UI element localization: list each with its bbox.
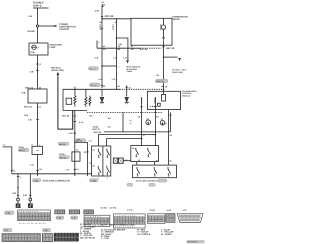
svg-text:(6): (6) (93, 164, 96, 167)
switch S3 (98, 166, 101, 174)
ETACS-ECU box top edge solid (63, 88, 120, 90)
wire TCM pin to switch box R (167, 110, 169, 166)
fuse F1 symbol circle (32, 45, 36, 49)
svg-text:(1): (1) (147, 117, 150, 120)
DLC pin stub 7 (74, 174, 76, 176)
connector oval C-23 bottom (5, 211, 15, 215)
svg-text:87/C-22: 87/C-22 (24, 105, 33, 108)
switch S9 (168, 167, 171, 175)
meter lower box right edge (170, 112, 172, 131)
fusible link underline (33, 7, 49, 9)
joint connector J/C(3) box (72, 152, 80, 161)
wire box2 to box M (123, 160, 131, 162)
svg-text:PU: PURPLE: PU: PURPLE (137, 233, 151, 236)
connector pinout grid A-06 (166, 214, 175, 223)
svg-text:MITSUBISHI: MITSUBISHI (187, 241, 197, 244)
switch box L (92, 146, 111, 176)
connector pinout grid small C-123 top (84, 210, 94, 214)
branch wire to second DLC pin (75, 143, 88, 174)
data link connector top line (12, 173, 92, 175)
ignition switch box (28, 89, 47, 103)
stub wire meter pin 38 (141, 97, 143, 112)
wire to combination meter horizontal (102, 18, 131, 20)
connector pinout grid C-135 (148, 214, 166, 224)
fuse F1 symbol bar (31, 46, 36, 48)
tick meter pin (162, 46, 164, 48)
svg-text:(16-PIN): (16-PIN) (110, 207, 117, 210)
connector pinout grid C-23 (18, 210, 51, 221)
junction dot V2 branch (116, 37, 118, 39)
combination meter box (131, 18, 172, 45)
tick V1 y=28.7 (101, 17, 103, 29)
meter lower box left edge (122, 112, 124, 131)
svg-text:86/C-22: 86/C-22 (89, 68, 95, 71)
stub wire meter pin 44 (155, 97, 157, 110)
switch S7 (137, 167, 140, 175)
connector oval C-23 DLC (33, 179, 41, 182)
tick pin 14 (11, 169, 13, 171)
ETACS-ECU box top edge dashed (120, 88, 164, 90)
wire V1 main diagnosis line (101, 7, 103, 88)
connector pinout grid C-38 (42, 234, 52, 242)
transmission control module box (148, 91, 181, 109)
svg-text:C-B: C-B (95, 56, 99, 59)
ground pin circle 2 (29, 198, 32, 201)
wire DLC ground 1 (17, 174, 19, 198)
resistor R3 (89, 96, 91, 107)
connector pinout grid C-134 (114, 214, 146, 229)
svg-text:SYSTEM: SYSTEM (59, 28, 69, 31)
svg-text:C-B: C-B (30, 163, 34, 166)
wire DLC ground 2 (29, 174, 31, 198)
svg-text:MU: MU (89, 114, 93, 117)
svg-text:PG: PG (156, 74, 159, 77)
tick pin 16 (36, 170, 38, 172)
wire V1 to V2 link (102, 65, 117, 67)
svg-text:METER: METER (172, 18, 180, 21)
tick pin 19 (161, 85, 163, 87)
ground symbol square 2 (28, 203, 33, 208)
svg-text:L-R: L-R (66, 169, 70, 172)
data link connector switch box (133, 165, 177, 178)
svg-text:FUSE: FUSE (50, 46, 56, 49)
svg-text:0.85: 0.85 (118, 43, 122, 46)
junction dot V1-V2 link (101, 65, 103, 67)
switch S7 arrowhead (137, 175, 139, 177)
junction dot meter branch (163, 56, 165, 58)
switch S4 arrowhead (106, 174, 108, 176)
pin stub from box M (136, 162, 138, 166)
svg-text:NOTE : WIRING HARNESS CODE: NOTE : WIRING HARNESS CODE (101, 223, 135, 226)
indicator lamp arrow 1 (147, 121, 149, 125)
switch S1 arrowhead (98, 157, 100, 159)
connector oval C-37 (3, 229, 12, 232)
svg-text:L-R: L-R (123, 57, 127, 60)
svg-text:C-38: C-38 (68, 132, 72, 135)
switch S4 (107, 166, 110, 174)
switch S1 (98, 149, 101, 157)
svg-text:SB: SKY BLUE: SB: SKY BLUE (80, 236, 96, 239)
DLC pin stub 5 (37, 174, 39, 176)
svg-text:MU-804: MU-804 (101, 206, 107, 209)
indicator lamp circle 2 (160, 120, 165, 125)
wire ignition to J/C(4) (37, 103, 39, 146)
wire meter output (163, 40, 165, 91)
wire circle to ground square 1 (17, 201, 19, 203)
svg-text:61/12B: 61/12B (28, 30, 35, 33)
svg-text:DATA LINK CONNECTOR: DATA LINK CONNECTOR (43, 180, 71, 183)
tick on wire y=119.5 (36, 119, 38, 121)
svg-text:(SOHC-MPI): (SOHC-MPI) (172, 71, 183, 74)
resistor R2 (85, 89, 87, 107)
connector oval C-38 (42, 229, 50, 232)
ECU input symbol 1 (100, 89, 104, 102)
connector oval C-123 (90, 179, 99, 182)
ground symbol square 1 (16, 203, 21, 208)
svg-text:(L-R): (L-R) (79, 121, 84, 124)
wire to power distribution arrow (39, 25, 55, 27)
switch S9 arrowhead (168, 175, 170, 177)
wire circle to ground square 2 (29, 201, 31, 203)
arrowhead rear defogger (126, 60, 129, 63)
indicator wire 1 (141, 112, 143, 145)
connector pinout trapezoid A-07 (177, 213, 203, 222)
junction dot ground wire 1 (17, 187, 19, 189)
wire L-shaped from left margin (3, 147, 12, 174)
tick V1 y=85.5 (101, 85, 103, 87)
svg-text:0.85-R: 0.85-R (153, 98, 156, 104)
svg-text:10 12 14 16 18 20 22: 10 12 14 16 18 20 22 (19, 222, 46, 225)
svg-text:7: 7 (118, 65, 119, 68)
svg-text:45/C-38: 45/C-38 (140, 48, 148, 51)
tick on wire y=133.2 (74, 122, 76, 134)
switch S5 (136, 148, 139, 156)
connector oval 86/C-28 on wire A (58, 142, 69, 145)
ETACS-ECU box bottom edge solid (63, 110, 87, 112)
connector line y=47.5 dashed (140, 47, 162, 49)
svg-text:A-B: A-B (22, 91, 26, 94)
tick ground wire 1 (17, 194, 19, 196)
wire V2 to rear defogger branch (117, 38, 128, 61)
svg-text:1: 1 (98, 177, 99, 180)
svg-text:LINK ②: LINK ② (33, 5, 43, 8)
svg-text:2-B: 2-B (30, 70, 34, 73)
svg-text:L-R: L-R (113, 56, 117, 59)
connector A-06 cross (113, 158, 118, 163)
node A junction circle (36, 25, 38, 27)
ground symbol 2 white marks (29, 204, 32, 208)
stub tick 38 (141, 106, 143, 108)
arrowhead MFI branch (178, 58, 181, 61)
svg-text:45/C-38: 45/C-38 (105, 15, 115, 18)
svg-text:(2): (2) (161, 118, 164, 121)
svg-text:36/C-38: 36/C-38 (94, 131, 102, 134)
pin stub 46 (154, 162, 156, 165)
svg-text:56/C-38: 56/C-38 (62, 114, 70, 117)
ETACS-ECU box left edge (62, 89, 64, 110)
svg-text:(49): (49) (102, 4, 106, 7)
svg-text:2-B: 2-B (29, 15, 33, 18)
indicator lamp circle 1 (146, 120, 151, 125)
svg-text:C-134: C-134 (127, 209, 133, 212)
svg-text:MODULE: MODULE (182, 94, 191, 97)
svg-text:86/C-22: 86/C-22 (25, 86, 34, 89)
svg-text:0.85-B: 0.85-B (111, 24, 114, 30)
svg-text:2-B: 2-B (12, 192, 16, 195)
switch S2 (107, 149, 110, 157)
tick ground wire 2 (29, 194, 31, 196)
switch S2 arrowhead (106, 157, 108, 159)
indicator wire 2 (155, 110, 157, 146)
tick pin 1 (17, 176, 19, 178)
svg-text:L-R: L-R (112, 78, 116, 81)
svg-text:COMBINATION: COMBINATION (172, 16, 188, 19)
interface I/F box inside ETACS (66, 98, 72, 104)
wire branch to MFI arrow (164, 56, 178, 58)
wire MFI loop down-right-up (58, 75, 73, 129)
switch S6 arrowhead (147, 156, 149, 158)
svg-text:85/C-37: 85/C-37 (93, 128, 101, 131)
DLC pin stub 8 (87, 174, 89, 176)
svg-text:J/C(3): J/C(3) (59, 153, 65, 156)
ECU input symbol 2 hatch (125, 103, 128, 104)
tick pin 14 (74, 169, 76, 171)
wire ETACS pin N4 to DLC (74, 111, 76, 174)
ground pin circle 1 (17, 198, 20, 201)
switch box L divider (102, 146, 104, 176)
ground symbol 1 white marks (16, 204, 19, 208)
MFI-ECU up arrow (57, 72, 60, 75)
connector box 2 cross (119, 158, 124, 163)
ECU input symbol 2 (125, 86, 129, 103)
switch box M (131, 146, 159, 162)
wire H1 to box L (99, 135, 156, 147)
switch S8 arrowhead (154, 175, 156, 177)
connector pinout grid C-09 (55, 210, 65, 214)
tick pin 4 (36, 63, 38, 65)
connector oval C-22 right (156, 79, 169, 83)
svg-text:15: 15 (76, 149, 78, 152)
wire fuse to ignition box (37, 55, 39, 89)
tick pin 13 (86, 151, 88, 153)
svg-text:0.85-B: 0.85-B (98, 24, 101, 30)
Mitsubishi footer bar (187, 240, 205, 243)
ECU input symbol 1 hatch (101, 103, 104, 104)
svg-text:86/C-37: 86/C-37 (19, 149, 25, 152)
joint connector J/C(4) box (32, 146, 43, 154)
wire V2 (116, 19, 118, 90)
wire H2 to box L (107, 139, 142, 146)
svg-text:TIMER: TIMER (126, 70, 133, 73)
svg-text:M3/C-22: M3/C-22 (156, 80, 163, 83)
svg-text:L-R: L-R (77, 138, 81, 141)
arrow inside meter (162, 37, 165, 40)
indicator lamp arrow 2 (162, 121, 164, 125)
TCM internal dashes (150, 105, 156, 107)
speedometer circle (161, 25, 165, 29)
wire battery feed vertical x=37.5 (37, 8, 39, 43)
svg-text:87/C-22: 87/C-22 (90, 84, 96, 87)
switch S3 arrowhead (98, 174, 100, 176)
ETACS-ECU bottom dashed boundary (87, 111, 163, 113)
svg-text:7: 7 (107, 177, 108, 180)
svg-text:46/C-38: 46/C-38 (166, 47, 175, 50)
connector oval C-22 on V1 (89, 67, 99, 71)
top label arrow V1 (101, 4, 103, 7)
connector pinout grid C-123 (84, 215, 110, 227)
svg-text:T : TAN: T : TAN (101, 237, 109, 240)
connector pinout grid C-37 (2, 234, 40, 242)
meter lower box bottom edge (104, 131, 171, 133)
tick connector C-22 (36, 70, 38, 72)
connector oval C-75 on V1 (90, 83, 101, 87)
svg-text:2-B: 2-B (23, 194, 27, 197)
svg-text:10A: 10A (30, 51, 35, 54)
switch S5 arrowhead (135, 156, 137, 158)
junction dot H2 (141, 138, 143, 140)
svg-text:MFI-ECU: MFI-ECU (51, 66, 61, 69)
connector pinout grid C-10 (69, 210, 80, 214)
tick stub 44 (126, 86, 128, 88)
J/C(4) internal pin mark (36, 149, 38, 151)
svg-text:SPEED: SPEED (159, 24, 162, 31)
svg-text:W : WHITE: W : WHITE (161, 233, 172, 236)
TCM internal blob (158, 103, 161, 106)
svg-text:(4): (4) (93, 148, 96, 151)
TCM internal component (162, 95, 166, 102)
svg-text:1-B: 1-B (28, 119, 32, 122)
wire J/C(4) to data link connector (37, 154, 39, 173)
connector oval 85/C-28 upper (75, 139, 86, 142)
svg-text:85/C-28: 85/C-28 (60, 156, 66, 159)
speedometer wire top (163, 18, 165, 25)
fuse F1 box (29, 43, 48, 55)
svg-text:L-B: L-B (98, 78, 102, 81)
connector box 2 (119, 158, 124, 163)
svg-text:(V): (V) (102, 1, 105, 4)
svg-text:0.85-V: 0.85-V (140, 98, 143, 104)
svg-text:C-135: C-135 (149, 209, 155, 212)
svg-text:A-B: A-B (24, 114, 28, 117)
svg-text:(2): (2) (165, 122, 168, 125)
stub tick 44 (154, 106, 156, 108)
connector A-06 box (113, 158, 118, 163)
switch S6 (148, 148, 151, 156)
connector ovals bottom (127, 183, 133, 186)
svg-text:(SOHC-MPI): (SOHC-MPI) (51, 69, 64, 72)
svg-text:86/C-28: 86/C-28 (59, 143, 65, 146)
svg-text:C-123: C-123 (90, 179, 97, 182)
junction dot H1 (155, 134, 157, 136)
svg-text:DATA LINK CONNECTOR: DATA LINK CONNECTOR (136, 180, 161, 183)
connector pinout grid dark C-124 (54, 233, 79, 241)
arrowhead power distribution (54, 25, 57, 27)
resistor R1 (74, 87, 76, 107)
junction dot branch (74, 142, 76, 144)
TCM internal wire (163, 91, 165, 94)
speedometer wire mid (163, 29, 165, 37)
svg-text:15: 15 (89, 162, 91, 165)
connector line y=47.5 solid (97, 41, 140, 49)
switch S8 (154, 167, 157, 175)
